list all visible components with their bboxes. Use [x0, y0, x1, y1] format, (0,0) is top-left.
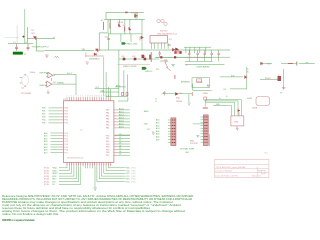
right pin names inner — [106, 109, 109, 157]
junction reg out — [168, 44, 171, 46]
crystal pin marks — [24, 75, 26, 86]
svg-text:AD5: AD5 — [44, 146, 48, 149]
ground ICSP — [207, 84, 210, 87]
wire vert x99 — [99, 33, 107, 51]
svg-text:16MHz: 16MHz — [30, 72, 36, 74]
opamp IC2B pins — [45, 82, 55, 85]
wire below ICSP — [193, 84, 212, 91]
svg-text:PD1: PD1 — [65, 111, 69, 113]
opamp IC2B — [47, 81, 52, 87]
svg-text:VIN: VIN — [82, 49, 86, 51]
wire y88.9 — [230, 88, 247, 90]
svg-text:Shts: Shts — [264, 152, 268, 155]
cap C4 — [158, 51, 161, 57]
resistor R3 — [124, 27, 126, 32]
wire jack pin right — [26, 27, 28, 44]
rail C low — [185, 64, 224, 66]
svg-text:AD3: AD3 — [156, 127, 160, 130]
USB connector X2 — [231, 116, 244, 126]
crystal circle Q1 — [22, 75, 29, 85]
title block row line3 — [215, 171, 269, 173]
MCU top pin numbers — [66, 95, 111, 97]
reset cluster wire — [162, 94, 192, 103]
svg-text:D6: D6 — [119, 151, 121, 153]
comp on rail2 — [174, 56, 176, 58]
svg-text:IC3: IC3 — [63, 99, 66, 101]
wire top rail1 — [106, 11, 144, 13]
ground sym G2 — [164, 60, 168, 62]
svg-text:PA0: PA0 — [106, 109, 109, 112]
three LEDs row: wire — [119, 58, 159, 60]
wire top right1 — [95, 88, 119, 90]
left pin names inner2 — [65, 133, 69, 155]
mosfet T2 — [140, 36, 144, 41]
svg-text:GATE_CMD: GATE_CMD — [127, 43, 139, 46]
svg-text:AD2: AD2 — [44, 137, 48, 140]
wire vert x136 — [135, 12, 137, 19]
svg-text:ADC4: ADC4 — [119, 119, 124, 122]
wire avcc — [115, 86, 126, 88]
bottom fanout wires left — [59, 166, 92, 184]
title block inner vert — [256, 167, 258, 178]
MCU IC3 body — [63, 101, 114, 163]
svg-text:AD6: AD6 — [44, 149, 48, 152]
left pin labels group1 — [42, 108, 45, 125]
svg-text:PA4: PA4 — [106, 121, 109, 124]
cap C11 — [217, 52, 220, 57]
svg-text:1N4148: 1N4148 — [176, 101, 182, 103]
wire mid right — [260, 69, 284, 89]
ground sym jack — [45, 55, 49, 57]
regulator pins — [151, 43, 168, 49]
transistor T1 — [135, 14, 138, 19]
rn comp — [204, 97, 207, 100]
cap C10 — [210, 52, 213, 57]
wire GND stub — [36, 50, 44, 52]
svg-text:RESET: RESET — [52, 173, 58, 175]
rail B mid — [155, 56, 230, 58]
svg-text:PD2: PD2 — [65, 114, 69, 116]
svg-text:TITLE: ARDUINO_quasi_MEGA8: TITLE: ARDUINO_quasi_MEGA8 — [216, 166, 247, 169]
wire block top rail — [108, 19, 142, 50]
rn wire — [204, 100, 206, 107]
title block row line1 — [215, 164, 269, 166]
svg-text:RL: RL — [247, 71, 249, 73]
rounded module ANT — [256, 97, 270, 106]
svg-text:(PCI4): (PCI4) — [44, 179, 49, 181]
license text — [2, 195, 194, 216]
svg-text:AD7: AD7 — [156, 138, 160, 141]
comp on rail — [160, 56, 162, 58]
svg-text:AD2: AD2 — [156, 124, 160, 127]
svg-text:(PCI5): (PCI5) — [44, 181, 49, 183]
wire top rail2 — [104, 18, 145, 20]
svg-text:PA3: PA3 — [106, 118, 109, 121]
capacitor C2 — [27, 44, 30, 51]
svg-text:PB5: PB5 — [42, 123, 45, 125]
svg-text:PC4: PC4 — [65, 144, 69, 146]
diode D1 — [33, 37, 38, 41]
svg-text:PD0: PD0 — [65, 108, 69, 110]
dark comp bottom — [176, 48, 179, 51]
usb gnd — [236, 126, 239, 131]
svg-text:ADC3: ADC3 — [119, 116, 124, 119]
LED LD1 — [123, 58, 126, 61]
wire mid drops — [108, 34, 131, 50]
mounting circle H3 — [164, 22, 167, 25]
caps row: C7 — [188, 52, 220, 57]
rn cap — [203, 107, 208, 108]
svg-text:PE4: PE4 — [106, 147, 109, 149]
svg-text:PD4: PD4 — [65, 120, 69, 122]
svg-text:(PD1): (PD1) — [131, 170, 136, 172]
svg-text:D1: D1 — [119, 137, 121, 139]
svg-text:D7: D7 — [119, 154, 121, 156]
svg-text:PB1: PB1 — [42, 111, 45, 113]
svg-text:PC0: PC0 — [65, 133, 69, 135]
svg-text:(PCI0): (PCI0) — [44, 168, 49, 170]
svg-text:USB: USB — [234, 122, 239, 124]
wire vert above — [118, 50, 120, 59]
svg-text:(PD4): (PD4) — [131, 179, 136, 181]
opamp IC2A — [48, 72, 53, 78]
wire vertical from D1 node down — [35, 38, 37, 51]
svg-text:USBVCC/VUSB: USBVCC/VUSB — [123, 66, 137, 68]
svg-text:AD3: AD3 — [44, 140, 48, 143]
wire to right of diode — [37, 37, 55, 39]
ICSP box — [192, 78, 210, 88]
svg-text:100NF-ARRAY: 100NF-ARRAY — [196, 66, 210, 69]
comp LED right — [261, 62, 263, 65]
svg-text:10k: 10k — [109, 21, 112, 23]
diode D6 on rail A — [172, 48, 175, 51]
svg-text:LD2: LD2 — [132, 56, 135, 58]
svg-text:AD4: AD4 — [156, 130, 160, 133]
svg-text:AD7: AD7 — [44, 151, 48, 154]
svg-text:D2: D2 — [119, 140, 121, 142]
svg-text:(PCI3): (PCI3) — [44, 176, 49, 178]
caps top C13 — [126, 92, 128, 96]
left pin labels group2 — [44, 132, 48, 155]
svg-text:PA1: PA1 — [106, 112, 109, 115]
wire horiz under jack — [8, 43, 33, 45]
svg-text:PC2: PC2 — [65, 138, 69, 140]
svg-text:Date: 2/17/2011 5:42 PM: Date: 2/17/2011 5:42 PM — [215, 175, 237, 178]
header JP1 labels — [156, 119, 160, 142]
resistor R top — [102, 22, 104, 30]
header JP2 pins inner — [204, 117, 207, 142]
svg-text:FDN340P: FDN340P — [131, 13, 139, 15]
reset vert red — [191, 92, 193, 96]
svg-text:(PCI6): (PCI6) — [44, 184, 49, 186]
svg-text:1k: 1k — [123, 25, 125, 27]
net arrow green — [142, 67, 147, 70]
cap C9 — [203, 52, 206, 57]
comp in ICSP — [197, 79, 202, 83]
svg-text:PE6: PE6 — [106, 152, 109, 154]
svg-text:ADC0: ADC0 — [119, 107, 124, 110]
cap C14 — [163, 91, 166, 96]
wire main rail to regulator — [45, 50, 95, 52]
svg-text:PC3: PC3 — [65, 141, 69, 143]
svg-text:AD0: AD0 — [44, 132, 48, 135]
svg-text:CSTCE16M0: CSTCE16M0 — [21, 93, 32, 95]
svg-text:PE1: PE1 — [106, 138, 109, 140]
fanout right labels — [126, 168, 136, 184]
ground bottom — [94, 188, 97, 190]
svg-text:PB0: PB0 — [42, 108, 45, 110]
svg-text:MEGA48/88/168-AU: MEGA48/88/168-AU — [67, 157, 84, 160]
header JP1 — [171, 118, 176, 146]
wire y135 — [115, 134, 130, 136]
svg-text:100n: 100n — [105, 37, 109, 39]
svg-text:PD3: PD3 — [65, 117, 69, 119]
svg-text:CMP/PROG: CMP/PROG — [39, 73, 50, 75]
LED L wire — [220, 67, 247, 89]
cap C3 — [107, 39, 110, 40]
svg-text:LD3: LD3 — [142, 56, 145, 58]
opamp IC2A pins — [46, 74, 55, 77]
header JP2 — [204, 115, 209, 146]
svg-text:VUSB: VUSB — [247, 98, 253, 100]
green wire y47.2 — [184, 47, 211, 53]
svg-text:PB2: PB2 — [42, 114, 45, 116]
LED LD2 — [134, 58, 137, 61]
right top: wire SCK row — [263, 63, 272, 65]
svg-text:PC1: PC1 — [65, 136, 69, 138]
usb shield wire — [86, 52, 104, 57]
svg-text:PE2: PE2 — [106, 141, 109, 143]
svg-text:D3: D3 — [180, 93, 182, 95]
svg-text:RN1A: RN1A — [203, 92, 209, 95]
resistor R2 — [109, 23, 111, 29]
svg-text:L13: L13 — [223, 89, 226, 91]
wire jack pin left — [16, 26, 18, 44]
comparator block rails — [108, 19, 142, 50]
svg-text:GND: GND — [176, 98, 181, 100]
capacitor C1 — [15, 44, 18, 51]
svg-text:PC5: PC5 — [65, 147, 69, 149]
svg-text:PA2: PA2 — [106, 115, 109, 118]
caps top C12 — [122, 92, 124, 96]
MCU left pins — [60, 108, 64, 153]
gnd between headers — [196, 136, 199, 138]
svg-text:(PD3): (PD3) — [131, 176, 136, 178]
wire opamp out — [55, 83, 77, 85]
svg-text:(PD2): (PD2) — [131, 173, 136, 175]
net label GND arrow — [122, 42, 127, 44]
wire vert LED row to chip — [118, 59, 120, 96]
header JP1 stubs — [168, 120, 171, 142]
svg-text:AVCC: AVCC — [116, 84, 122, 87]
small sym above2 — [179, 51, 181, 54]
svg-text:AD4: AD4 — [44, 143, 48, 146]
fuse F1 — [55, 57, 59, 58]
wire usb label line — [118, 63, 150, 65]
small sym above — [174, 51, 176, 54]
svg-text:IC3: IC3 — [80, 130, 83, 132]
svg-text:AD0: AD0 — [156, 119, 160, 122]
comp small — [296, 62, 298, 66]
left pin wires group1 — [49, 108, 60, 123]
diode Z1 — [94, 53, 97, 56]
svg-text:D5: D5 — [119, 148, 121, 150]
svg-text:PA5: PA5 — [106, 124, 109, 127]
wire top right2 — [100, 91, 119, 93]
ground T3 — [282, 88, 285, 90]
svg-text:USBVCC: USBVCC — [145, 71, 154, 73]
svg-text:GND: GND — [144, 123, 149, 125]
svg-text:notice. Do not finalize a desi: notice. Do not finalize a design with th… — [2, 213, 59, 216]
crystal stubs — [20, 77, 22, 83]
svg-text:JP2 8X1F: JP2 8X1F — [190, 143, 199, 145]
ground right — [152, 131, 155, 134]
svg-text:DIGITAL PWM: DIGITAL PWM — [180, 147, 194, 150]
wire between opamps — [50, 78, 52, 81]
MCU bottom pins — [67, 162, 111, 166]
bottom fanout wires right — [95, 166, 126, 188]
left pin wires group2 — [51, 133, 60, 153]
caps near xtal — [174, 75, 176, 79]
svg-text:PE7: PE7 — [106, 155, 109, 157]
svg-text:MOSI: MOSI — [52, 176, 57, 178]
svg-text:USB-B: USB-B — [252, 108, 258, 110]
svg-text:MISO: MISO — [52, 179, 57, 181]
svg-text:500mA: 500mA — [196, 80, 202, 83]
MCU right pins — [114, 110, 118, 155]
wire VIN vertical — [24, 9, 26, 44]
top rail wire y57.4 — [156, 56, 211, 58]
LED L — [245, 75, 247, 79]
svg-text:PWREN: PWREN — [57, 83, 64, 85]
svg-text:GND: GND — [216, 104, 221, 106]
reset gnd — [188, 103, 191, 105]
resistor row RN right — [190, 56, 200, 58]
svg-text:PE5: PE5 — [106, 149, 109, 151]
svg-text:RESET: RESET — [265, 78, 272, 80]
svg-text:D4: D4 — [119, 145, 121, 147]
MCU bottom pin numbers — [66, 164, 111, 166]
svg-text:(PD5): (PD5) — [131, 181, 136, 183]
svg-text:POWERSUPPLY: POWERSUPPLY — [32, 47, 49, 49]
svg-text:USBSHIELD: USBSHIELD — [89, 59, 100, 61]
MCU top pins — [67, 97, 111, 101]
svg-text:ADC5: ADC5 — [119, 122, 124, 125]
wire diode down — [238, 112, 240, 116]
svg-text:USBVCC: USBVCC — [39, 85, 48, 87]
xtal area: crystal Q2 — [160, 61, 171, 71]
svg-text:AD1: AD1 — [44, 135, 48, 138]
svg-text:ADC6: ADC6 — [119, 125, 124, 128]
svg-text:PE3: PE3 — [106, 144, 109, 146]
svg-text:PB4: PB4 — [42, 120, 45, 122]
transistor T3 — [278, 76, 282, 81]
diode D5 — [129, 27, 131, 30]
wire vert x103.8 — [103, 57, 105, 97]
svg-text:PC7: PC7 — [65, 152, 69, 154]
wire XVCC — [54, 74, 76, 95]
fanout left labels — [44, 167, 58, 187]
reset diode — [175, 92, 178, 95]
svg-text:CD1206: CD1206 — [117, 22, 123, 24]
svg-text:XTAL1: XTAL1 — [52, 167, 57, 170]
svg-text:AD5: AD5 — [156, 133, 160, 136]
cap C5 — [177, 49, 180, 54]
usb wires bundle — [206, 100, 242, 116]
aref wires — [118, 97, 128, 101]
svg-text:(PCI1): (PCI1) — [44, 170, 49, 172]
label GND left — [5, 37, 19, 39]
svg-text:XVCC: XVCC — [67, 73, 73, 75]
wire right — [281, 63, 315, 65]
wire vert left of block — [105, 12, 107, 19]
svg-text:F1: F1 — [185, 82, 187, 84]
mounting circle H2 — [161, 19, 164, 22]
green wire left of block — [209, 134, 211, 146]
diode D2 — [95, 49, 99, 52]
title block row line2 — [215, 168, 269, 170]
transistor T1b — [142, 55, 145, 58]
svg-text:D+: D+ — [219, 98, 221, 100]
MCU top wires going up — [106, 70, 128, 97]
svg-text:(PCI2): (PCI2) — [44, 173, 49, 175]
svg-text:AD1: AD1 — [156, 122, 160, 125]
wire rail continue — [99, 49, 230, 51]
svg-text:ADC2: ADC2 — [119, 113, 124, 116]
cap C6 — [149, 55, 151, 60]
svg-text:PD5: PD5 — [65, 123, 69, 125]
ground usb — [86, 62, 89, 64]
power jack X1 — [13, 52, 23, 55]
svg-text:Sheet: 1/1: Sheet: 1/1 — [252, 175, 262, 178]
left pin names inner1 — [65, 108, 69, 125]
header JP2 stubs — [201, 117, 204, 142]
resistor vert x151 — [150, 52, 152, 62]
mounting circle H1 — [157, 19, 160, 22]
ground sym G3 — [171, 65, 175, 67]
right pin labels — [119, 107, 124, 155]
svg-text:XTAL2: XTAL2 — [52, 169, 57, 172]
wire drops — [110, 19, 129, 34]
svg-text:D3: D3 — [119, 143, 121, 145]
wire stubs caps top — [185, 50, 219, 62]
right pin wires — [118, 110, 130, 155]
svg-text:NCP1117: NCP1117 — [160, 31, 168, 33]
svg-text:REV:: REV: — [258, 171, 262, 173]
svg-text:Document Number:: Document Number: — [215, 169, 233, 172]
cap C8 — [196, 52, 199, 57]
diode D3 on rail — [126, 11, 128, 13]
diode D4 — [118, 24, 120, 27]
LED LD3 — [144, 58, 147, 61]
header JP1 pins inner — [172, 120, 175, 142]
svg-text:PC6: PC6 — [65, 150, 69, 152]
resistor RX — [288, 63, 293, 65]
svg-text:PE0: PE0 — [106, 135, 109, 137]
title block outer — [215, 159, 269, 177]
svg-text:(PD0): (PD0) — [131, 168, 136, 170]
svg-text:ADC1: ADC1 — [119, 110, 124, 113]
svg-text:ARDUINO is a registered tradem: ARDUINO is a registered trademark. — [2, 219, 35, 222]
wire into JP2 — [193, 123, 204, 125]
junction + mark — [22, 36, 24, 38]
svg-text:PB3: PB3 — [42, 117, 45, 119]
diode near usb — [238, 109, 241, 112]
title block rev box — [262, 170, 265, 174]
svg-text:XT1: XT1 — [156, 69, 159, 71]
svg-text:AD6: AD6 — [156, 136, 160, 139]
wire after D1 — [27, 37, 32, 39]
